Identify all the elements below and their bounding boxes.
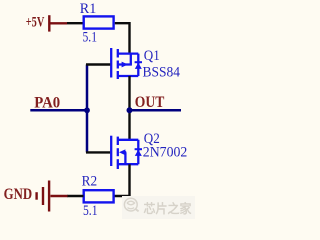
Q1 body diode triangle: [135, 63, 142, 69]
Q1 drain stub: [118, 52, 139, 54]
svg-text:5.1: 5.1: [83, 203, 98, 219]
Q2 channel dash source: [117, 159, 119, 169]
Q2 gate bar: [110, 136, 112, 166]
wire Q1 source to Q2 drain: [128, 76, 130, 140]
Q2 body diode cathode bar: [135, 148, 142, 150]
svg-text:OUT: OUT: [135, 94, 165, 111]
watermark logo: [124, 198, 138, 211]
Q1 bulk-source connector: [130, 54, 132, 65]
svg-text:GND: GND: [4, 186, 32, 203]
power port +5V bar symbol: [48, 15, 50, 31]
wire R1 to Q1 drain: [115, 22, 130, 53]
Q2 channel dash bulk: [117, 148, 119, 156]
Q1 gate bar: [110, 48, 112, 78]
wire gates vertical: [86, 65, 89, 153]
Q1 source stub: [118, 75, 139, 77]
Q2 channel dash drain: [117, 137, 119, 145]
ground symbol lead: [51, 195, 68, 197]
junction PA0/gates: [84, 107, 90, 113]
resistor R1: [84, 16, 114, 28]
watermark background: [122, 196, 195, 219]
Q2 body diode line: [137, 140, 139, 164]
Q1 bulk stub: [118, 63, 132, 65]
Q2 drain stub: [118, 139, 139, 141]
Q1 body diode cathode bar: [135, 61, 142, 63]
wire Q1 gate: [86, 63, 110, 65]
wire Q2 source to R2: [113, 164, 131, 196]
Q2 source stub: [118, 163, 139, 165]
svg-text:R2: R2: [82, 174, 98, 190]
Q1 body diode line: [137, 54, 139, 76]
svg-text:R1: R1: [80, 1, 97, 17]
wire +5V to R1: [67, 22, 83, 24]
transistor Q1 (P-MOSFET BSS84): [111, 48, 142, 79]
svg-text:5.1: 5.1: [83, 30, 98, 46]
wire PA0: [30, 109, 87, 112]
Q1 channel dash source: [117, 71, 119, 79]
svg-text:芯片之家: 芯片之家: [144, 201, 192, 216]
Q1 bulk arrow: [122, 62, 128, 68]
wire OUT: [130, 109, 182, 112]
svg-text:PA0: PA0: [34, 95, 60, 112]
ground symbol bar small: [35, 192, 37, 200]
ground symbol bar large: [48, 181, 50, 212]
Q2 bulk arrow: [119, 149, 125, 155]
wire Q2 gate: [86, 151, 110, 153]
svg-text:Q1: Q1: [144, 48, 160, 64]
Q1 channel dash bulk: [117, 61, 119, 69]
Q1 channel dash drain: [117, 49, 119, 58]
svg-text:2N7002: 2N7002: [143, 145, 188, 161]
wire R2 to ground: [67, 195, 84, 197]
resistor R2: [84, 190, 114, 202]
Q2 body diode triangle: [135, 150, 142, 156]
power port +5V lead: [50, 22, 67, 24]
Q2 bulk stub: [125, 151, 127, 153]
ground symbol bar medium: [42, 187, 44, 205]
svg-text:BSS84: BSS84: [143, 64, 181, 80]
svg-text:+5V: +5V: [26, 14, 45, 30]
Q2 bulk-source connector: [124, 152, 126, 164]
junction OUT: [127, 107, 133, 113]
transistor Q2 (N-MOSFET 2N7002): [111, 136, 142, 169]
